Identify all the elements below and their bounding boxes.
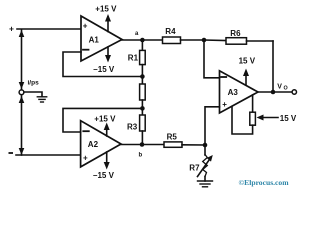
svg-text:15 V: 15 V — [239, 57, 256, 66]
svg-text:+: + — [83, 21, 88, 30]
wire circle to ground — [24, 92, 42, 97]
svg-text:+: + — [83, 153, 88, 162]
svg-text:+: + — [222, 100, 227, 109]
input terminal + label — [9, 23, 14, 33]
wire lower-left vertical (with current arrows) — [21, 96, 23, 155]
svg-text:A3: A3 — [228, 88, 239, 97]
ground (input) — [37, 97, 46, 102]
power 15 V (A3) arrow — [245, 72, 247, 85]
wire top input to A1 + — [17, 28, 81, 30]
resistor R5 — [142, 144, 164, 146]
wire R6 feedback down to Vo node — [272, 41, 274, 92]
svg-text:–15 V: –15 V — [93, 171, 115, 180]
power -15 V (A2) arrow — [106, 152, 108, 166]
wire A3 non-inverting branch down to R5 junction — [205, 107, 220, 145]
svg-text:15 V: 15 V — [280, 114, 297, 123]
svg-text:O: O — [284, 86, 288, 92]
op-amp A1 — [81, 16, 122, 61]
op-amp A3 — [220, 71, 259, 113]
resistor R3 — [141, 108, 143, 115]
wire A1 output to node a — [122, 39, 163, 41]
svg-text:©Elprocus.com: ©Elprocus.com — [239, 178, 290, 187]
resistor Rgain (unlabeled) — [141, 77, 143, 85]
resistor R6 — [204, 39, 226, 42]
node j2 — [140, 106, 145, 111]
potentiometer R7 — [204, 145, 206, 155]
resistor R8 (offset, unlabeled) — [252, 95, 254, 112]
svg-text:A2: A2 — [88, 140, 99, 149]
op-amp A2 — [81, 121, 121, 167]
node a — [140, 38, 145, 43]
wire A3 output — [258, 91, 292, 93]
node b — [140, 142, 145, 147]
wire A2 feedback (inverting input to j2) — [63, 108, 142, 132]
node i/ps input terminal circle — [19, 90, 24, 95]
svg-text:R5: R5 — [167, 132, 178, 141]
svg-text:V: V — [277, 84, 282, 91]
wire bottom input to A2 + — [16, 154, 81, 156]
svg-text:+: + — [9, 23, 14, 33]
svg-text:i/ps: i/ps — [28, 79, 40, 86]
svg-text:A1: A1 — [89, 35, 100, 44]
terminal Vo circle — [292, 90, 296, 94]
input terminal - label — [9, 152, 14, 154]
svg-text:+15 V: +15 V — [95, 4, 117, 13]
svg-text:b: b — [139, 153, 143, 159]
wire A1 feedback (inverting input to j1) — [63, 52, 142, 77]
wire A3 inverting branch from R4/R6 junction — [204, 40, 220, 78]
wire A2 output to node b — [121, 144, 142, 146]
resistor R1 — [141, 40, 143, 50]
svg-text:R3: R3 — [127, 122, 138, 131]
svg-text:R1: R1 — [128, 54, 139, 63]
label i/ps — [28, 79, 40, 86]
node Vo — [271, 90, 276, 95]
svg-text:a: a — [135, 31, 139, 37]
svg-text:–15 V: –15 V — [93, 65, 115, 74]
wire upper-left vertical (with current arrows) — [21, 30, 23, 89]
power -15 V (A1) arrow — [107, 47, 109, 59]
node j1 — [140, 74, 145, 79]
power +15 V (A2) arrow — [106, 126, 108, 137]
resistor R4 — [163, 37, 181, 44]
svg-text:R4: R4 — [165, 27, 176, 36]
power -15 V arrow into R8 — [260, 117, 278, 119]
watermark Elprocus — [239, 178, 290, 187]
power +15 V (A1) arrow — [107, 17, 109, 32]
node R4/R6 junction — [202, 38, 207, 43]
ground (R7) — [204, 177, 206, 182]
svg-text:R7: R7 — [189, 164, 200, 173]
svg-text:+15 V: +15 V — [94, 114, 116, 123]
svg-text:R6: R6 — [230, 29, 241, 38]
node R5/A3 junction — [203, 143, 208, 148]
